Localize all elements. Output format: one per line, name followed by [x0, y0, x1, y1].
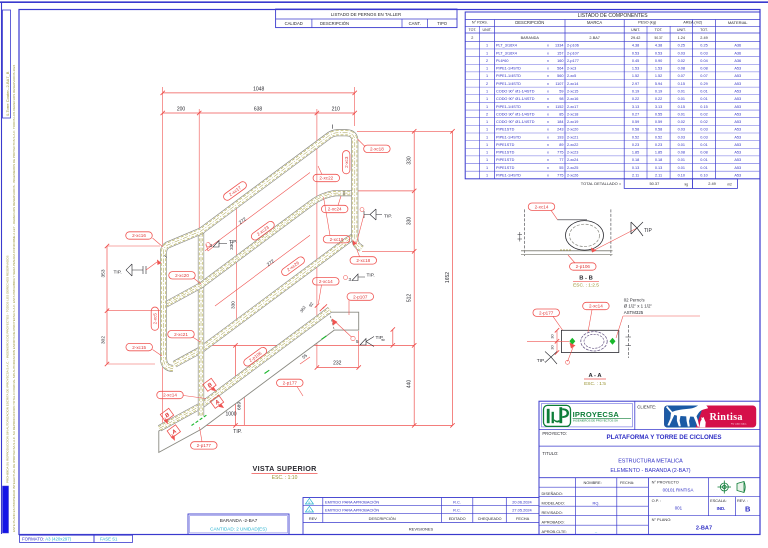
svg-text:5.94: 5.94: [655, 82, 662, 86]
svg-text:0.08: 0.08: [678, 151, 685, 155]
svg-text:B - B: B - B: [579, 275, 593, 281]
svg-text:AREA (m2): AREA (m2): [683, 21, 703, 25]
outer left border line: [1, 2, 3, 534]
svg-text:REVISIONES: REVISIONES: [409, 526, 434, 531]
svg-text:DISEÑADO:: DISEÑADO:: [542, 491, 563, 496]
svg-text:2-p177: 2-p177: [197, 443, 212, 448]
svg-text:ELEMENTO - BARANDA (2-BA7): ELEMENTO - BARANDA (2-BA7): [610, 468, 690, 474]
svg-text:0-Torre Coater--2-BA7_B: 0-Torre Coater--2-BA7_B: [5, 71, 10, 116]
svg-text:0.23: 0.23: [655, 143, 662, 147]
svg-text:A53: A53: [734, 105, 741, 109]
svg-text:UNIT.: UNIT.: [677, 28, 686, 32]
label 2-xc16: [126, 232, 153, 239]
plate 2-p107 slant joint dashed line: [329, 312, 334, 330]
sloped dim 272 upper: [205, 173, 310, 251]
svg-text:2-p177: 2-p177: [283, 381, 298, 386]
green weld dash near landing plate: [322, 336, 327, 339]
svg-text:2-xc18: 2-xc18: [370, 147, 384, 152]
svg-text:ESC. : 1:5: ESC. : 1:5: [584, 381, 606, 387]
svg-text:x: x: [547, 120, 549, 124]
svg-text:A53: A53: [734, 151, 741, 155]
svg-text:5: 5: [356, 339, 359, 344]
svg-text:R.C.: R.C.: [453, 507, 461, 512]
svg-text:0.19: 0.19: [632, 89, 639, 93]
svg-text:Por sobre todos: Por sobre todos: [731, 422, 747, 425]
svg-text:x: x: [547, 105, 549, 109]
svg-text:PL6*60: PL6*60: [496, 59, 508, 63]
svg-text:2-xc19: 2-xc19: [330, 237, 344, 242]
svg-text:1: 1: [486, 44, 488, 48]
svg-text:1.85: 1.85: [655, 151, 662, 155]
svg-text:564: 564: [557, 67, 563, 71]
svg-text:85: 85: [559, 112, 563, 116]
svg-text:0.03: 0.03: [700, 51, 707, 55]
bottom margin fase box: [94, 535, 133, 542]
dim vline 330x2 inside structure x=236.5: [236, 204, 238, 324]
dim hline y=131 to 1652 line: [357, 130, 453, 132]
svg-text:0.02: 0.02: [678, 120, 685, 124]
svg-text:0.01: 0.01: [678, 97, 685, 101]
svg-text:TIP.: TIP.: [229, 239, 237, 245]
svg-text:2: 2: [471, 36, 473, 40]
svg-text:2-xc14: 2-xc14: [535, 204, 549, 209]
svg-text:2-xc15: 2-xc15: [132, 345, 146, 350]
label 2-xc15: [126, 343, 153, 350]
svg-text:PROHIBIDA SU REPRODUCCION SIN: PROHIBIDA SU REPRODUCCION SIN AUTORIZACI…: [6, 256, 10, 484]
svg-text:A53: A53: [734, 174, 741, 178]
label 2-xc5: [151, 307, 158, 330]
svg-text:BARANDA: BARANDA: [521, 36, 540, 40]
detail B-B: pipe circle 2-xc14: [566, 221, 604, 251]
mid rail pipe 2-xc23 with elbow 2-xc19 and 2-xc24 horizontal: [166, 193, 354, 305]
svg-text:UNIT.: UNIT.: [483, 28, 492, 32]
svg-text:TOTAL DETALLADO =: TOTAL DETALLADO =: [581, 181, 622, 186]
svg-text:CHEQUEADO: CHEQUEADO: [478, 517, 502, 521]
dim extension vline x=163: [162, 87, 164, 246]
svg-text:560: 560: [557, 74, 563, 78]
svg-text:2-xc19: 2-xc19: [567, 120, 578, 124]
svg-text:0.10: 0.10: [678, 174, 685, 178]
svg-text:1107: 1107: [555, 82, 563, 86]
dim line 1048 top: [163, 92, 355, 94]
svg-text:ESC. : 1:2.5: ESC. : 1:2.5: [573, 283, 599, 289]
svg-text:638: 638: [254, 106, 263, 112]
svg-text:TIP.: TIP.: [537, 358, 545, 364]
svg-text:x: x: [547, 59, 549, 63]
svg-text:0.02: 0.02: [700, 112, 707, 116]
svg-text:0.58: 0.58: [632, 128, 639, 132]
svg-text:0.55: 0.55: [655, 112, 662, 116]
svg-text:0.07: 0.07: [700, 74, 707, 78]
svg-text:0.27: 0.27: [632, 112, 639, 116]
rintisa logo: [664, 404, 756, 427]
sloped dim 272 lower: [215, 235, 310, 306]
left dim vline 353-302 x=107: [106, 246, 108, 364]
svg-text:0.08: 0.08: [700, 151, 707, 155]
svg-text:0.53: 0.53: [632, 51, 639, 55]
svg-text:DESCRIPCIÓN: DESCRIPCIÓN: [320, 21, 349, 26]
svg-text:ESC. : 1:10: ESC. : 1:10: [272, 475, 298, 481]
svg-text:001: 001: [675, 506, 683, 511]
svg-text:0.18: 0.18: [632, 158, 639, 162]
svg-text:PROYECTO:: PROYECTO:: [542, 431, 567, 436]
svg-text:689: 689: [237, 402, 243, 410]
svg-text:2-xc14: 2-xc14: [567, 82, 578, 86]
svg-text:0.08: 0.08: [678, 67, 685, 71]
outer top border line: [0, 1, 768, 3]
svg-text:TIP: TIP: [644, 228, 652, 234]
svg-text:0.08: 0.08: [700, 67, 707, 71]
svg-text:A53: A53: [734, 112, 741, 116]
svg-text:PIPE1-1/4STD: PIPE1-1/4STD: [496, 74, 521, 78]
svg-text:2-xc18: 2-xc18: [356, 258, 370, 263]
svg-text:2: 2: [486, 59, 488, 63]
svg-text:EDITADO: EDITADO: [449, 516, 466, 521]
svg-text:2.11: 2.11: [655, 174, 662, 178]
svg-text:353: 353: [101, 269, 107, 277]
svg-text:2-xc20: 2-xc20: [567, 128, 578, 132]
svg-text:0.01: 0.01: [700, 143, 707, 147]
svg-text:0.01: 0.01: [700, 89, 707, 93]
svg-text:N° PLANO:: N° PLANO:: [652, 517, 672, 522]
svg-text:TIPO: TIPO: [437, 21, 448, 26]
svg-text:CLIENTE:: CLIENTE:: [637, 404, 656, 409]
svg-text:2-p107: 2-p107: [567, 51, 579, 55]
svg-text:200: 200: [177, 106, 186, 112]
pipe 2-xc14 on stringer: [160, 310, 331, 429]
svg-text:MARCA: MARCA: [587, 20, 602, 25]
svg-text:2: 2: [486, 112, 488, 116]
svg-text:55: 55: [559, 166, 563, 170]
svg-text:02 Perno’s: 02 Perno’s: [624, 297, 646, 302]
svg-text:PLATAFORMA Y TORRE DE CICLONES: PLATAFORMA Y TORRE DE CICLONES: [606, 434, 721, 441]
svg-text:1: 1: [486, 51, 488, 55]
svg-text:EMITIDO PARA APROBACIÓN: EMITIDO PARA APROBACIÓN: [325, 499, 379, 504]
iproyecsa logo: [542, 404, 633, 427]
svg-text:2-xc21: 2-xc21: [174, 332, 188, 337]
detail B-B: plate edge-on lines: [521, 250, 613, 252]
svg-text:0.45: 0.45: [632, 59, 639, 63]
svg-text:PIPE1STD: PIPE1STD: [496, 143, 515, 147]
svg-text:2-xc5: 2-xc5: [153, 313, 158, 325]
svg-text:1: 1: [486, 105, 488, 109]
svg-text:1: 1: [486, 97, 488, 101]
svg-text:1.24: 1.24: [678, 36, 685, 40]
svg-text:TOT.: TOT.: [700, 28, 708, 32]
svg-text:TIP.: TIP.: [233, 429, 242, 435]
section marker B upper: [203, 378, 216, 391]
detail B-B: label 2-xc14: [528, 203, 555, 210]
detail B-B: top tangent line: [557, 219, 587, 221]
svg-text:1: 1: [486, 74, 488, 78]
svg-text:CODO 90° Ø1-1/4STD: CODO 90° Ø1-1/4STD: [496, 89, 535, 93]
svg-text:160: 160: [557, 59, 563, 63]
svg-text:x: x: [547, 51, 549, 55]
svg-text:R.C.: R.C.: [453, 499, 461, 504]
svg-text:PIPE1-1/4STD: PIPE1-1/4STD: [496, 105, 521, 109]
svg-text:50.37: 50.37: [655, 36, 663, 40]
svg-text:x: x: [547, 82, 549, 86]
svg-text:CANT.: CANT.: [409, 21, 421, 26]
svg-text:1: 1: [486, 128, 488, 132]
section marker A lower: [167, 425, 180, 438]
svg-text:ESCALA:: ESCALA:: [710, 498, 726, 503]
dim hline y=345: [199, 344, 414, 346]
svg-text:BARANDA -2-BA7: BARANDA -2-BA7: [220, 518, 258, 523]
svg-text:2-xc5: 2-xc5: [567, 74, 576, 78]
svg-text:0.03: 0.03: [678, 128, 685, 132]
svg-text:2-xc16: 2-xc16: [132, 233, 146, 238]
svg-text:2-xc23: 2-xc23: [567, 151, 578, 155]
svg-text:REV: REV: [309, 516, 317, 521]
svg-text:0.53: 0.53: [655, 51, 662, 55]
svg-text:TITULO:: TITULO:: [542, 451, 558, 456]
dim extension vline x=199: [198, 109, 200, 222]
table: listado de pernos en taller: [276, 9, 457, 28]
svg-text:0.22: 0.22: [655, 97, 662, 101]
svg-text:Ø 1/2" x 1 1/2": Ø 1/2" x 1 1/2": [624, 304, 653, 309]
stringer plate 2-p106 outline: [159, 312, 359, 452]
svg-text:REVISADO:: REVISADO:: [542, 510, 563, 515]
svg-text:157: 157: [557, 51, 563, 55]
detail A-A: label 2-xc14: [583, 302, 610, 309]
detail A-A: red weld arrow inside plate: [570, 343, 576, 349]
svg-text:0.01: 0.01: [700, 97, 707, 101]
detail B-B: left dim mark: [518, 232, 523, 242]
svg-text:2-p106: 2-p106: [567, 44, 579, 48]
svg-text:1: 1: [486, 158, 488, 162]
svg-text:27.05.2024: 27.05.2024: [512, 507, 532, 512]
red weld arrow on post 2-xc5: [157, 260, 162, 266]
svg-text:A53: A53: [734, 89, 741, 93]
svg-text:0.02: 0.02: [700, 120, 707, 124]
svg-text:2.11: 2.11: [632, 174, 639, 178]
dim vline 689 x=244: [243, 388, 245, 425]
svg-text:30: 30: [551, 334, 555, 338]
svg-text:1: 1: [486, 143, 488, 147]
svg-text:0.01: 0.01: [678, 166, 685, 170]
svg-text:x: x: [547, 166, 549, 170]
svg-text:A36: A36: [734, 44, 741, 48]
svg-text:1: 1: [486, 67, 488, 71]
svg-text:2.97: 2.97: [632, 82, 639, 86]
svg-text:512: 512: [407, 294, 413, 303]
label 2-xc26 on rail: [280, 255, 306, 277]
svg-text:2-xc24: 2-xc24: [567, 158, 578, 162]
svg-text:DESCRIPCIÓN: DESCRIPCIÓN: [515, 20, 544, 25]
dim line 200-638-210: [163, 112, 355, 114]
svg-text:1: 1: [486, 174, 488, 178]
svg-text:330: 330: [407, 217, 413, 226]
svg-text:330: 330: [231, 301, 236, 309]
svg-text:x: x: [547, 158, 549, 162]
dim hline y=425 bottom: [199, 424, 452, 426]
svg-text:1.52: 1.52: [632, 74, 639, 78]
detail B-B: olive marks: [560, 249, 572, 251]
svg-text:PIPE1-1/4STD: PIPE1-1/4STD: [496, 82, 521, 86]
svg-text:89: 89: [559, 143, 563, 147]
svg-text:1.53: 1.53: [632, 67, 639, 71]
svg-text:2-xc25: 2-xc25: [567, 166, 578, 170]
svg-text:1000: 1000: [225, 412, 236, 418]
svg-text:x: x: [547, 97, 549, 101]
svg-text:193: 193: [557, 135, 563, 139]
svg-text:2-p177: 2-p177: [567, 59, 579, 63]
detail B-B: red weld arrow: [591, 248, 597, 253]
label 2-xc24: [321, 205, 348, 212]
svg-text:232: 232: [333, 361, 342, 367]
label 2-xc17 on rail: [222, 180, 248, 202]
svg-text:Rintisa: Rintisa: [710, 412, 743, 423]
svg-text:1048: 1048: [253, 86, 264, 92]
svg-text:FECHA: FECHA: [516, 516, 530, 521]
svg-text:2-xc18: 2-xc18: [567, 112, 578, 116]
svg-text:1: 1: [486, 120, 488, 124]
detail A-A: left dim 30 30: [556, 330, 558, 352]
svg-text:PIPE1STD: PIPE1STD: [496, 128, 515, 132]
svg-text:PIPE1-1/4STD: PIPE1-1/4STD: [496, 174, 521, 178]
label 2-xc22: [313, 174, 340, 181]
svg-text:FASE S1: FASE S1: [100, 537, 118, 542]
svg-text:x: x: [547, 174, 549, 178]
label 2-xc14 lower-left: [157, 391, 184, 398]
svg-text:A53: A53: [734, 143, 741, 147]
svg-text:LISTADO DE PERNOS EN TALLER: LISTADO DE PERNOS EN TALLER: [331, 12, 401, 17]
svg-text:IND.: IND.: [717, 506, 726, 511]
svg-text:ESTE PLANO ES PROPIEDAD INTELE: ESTE PLANO ES PROPIEDAD INTELECTUAL DE I…: [12, 64, 16, 532]
svg-text:0.13: 0.13: [655, 166, 662, 170]
svg-text:0.29: 0.29: [700, 82, 707, 86]
svg-text:A53: A53: [734, 135, 741, 139]
svg-text:330: 330: [407, 156, 413, 165]
svg-text:2-xc24: 2-xc24: [328, 207, 342, 212]
svg-text:1: 1: [486, 89, 488, 93]
svg-text:INGENIEROS DE PROYECTOS SA: INGENIEROS DE PROYECTOS SA: [573, 419, 618, 423]
svg-text:3: 3: [349, 277, 352, 282]
svg-text:1652: 1652: [445, 272, 451, 283]
svg-text:0.03: 0.03: [678, 51, 685, 55]
svg-text:3.13: 3.13: [632, 105, 639, 109]
svg-text:1: 1: [486, 166, 488, 170]
svg-text:PIPE1STD: PIPE1STD: [496, 151, 515, 155]
svg-text:LISTADO DE COMPONENTES: LISTADO DE COMPONENTES: [578, 13, 649, 19]
top rail chain: post 2-xc5, elbow 2-xc16, rail 2-xc17, 2-xc25, elbow 2-xc18, post 2-xc3: [164, 133, 362, 369]
joint marks on pipes: [332, 125, 334, 129]
title block outer: [539, 401, 760, 534]
detail B-B: dashed extension lines: [523, 209, 525, 256]
svg-text:A53: A53: [734, 120, 741, 124]
svg-text:2-xc3: 2-xc3: [344, 156, 349, 168]
projection symbol cone: [737, 482, 745, 493]
svg-text:A - A: A - A: [588, 373, 602, 379]
green weld dash mid stringer: [265, 370, 270, 373]
svg-text:0.03: 0.03: [700, 135, 707, 139]
svg-text:A53: A53: [734, 158, 741, 162]
svg-text:PLT_3/16X4: PLT_3/16X4: [496, 51, 517, 55]
svg-text:440: 440: [407, 380, 413, 389]
svg-text:APROB.CLTE:: APROB.CLTE:: [542, 529, 567, 534]
svg-text:B: B: [308, 501, 310, 505]
svg-text:0.25: 0.25: [700, 44, 707, 48]
svg-text:0.90: 0.90: [655, 59, 662, 63]
svg-text:1.53: 1.53: [655, 67, 662, 71]
dim hline y=191: [358, 190, 414, 192]
svg-text:1.52: 1.52: [655, 74, 662, 78]
detail A-A: label 2-p177: [533, 309, 560, 316]
svg-text:A36: A36: [734, 51, 741, 55]
dim vline 50 x=393: [392, 330, 394, 346]
svg-text:2: 2: [486, 82, 488, 86]
svg-text:0.02: 0.02: [678, 59, 685, 63]
svg-text:0.01: 0.01: [700, 158, 707, 162]
svg-text:TIP.: TIP.: [367, 273, 375, 279]
svg-text:2-p177: 2-p177: [539, 310, 554, 315]
svg-text:2-BA7: 2-BA7: [696, 526, 712, 532]
svg-text:1334: 1334: [555, 44, 563, 48]
svg-text:PIPE1STD: PIPE1STD: [496, 166, 515, 170]
svg-text:184: 184: [557, 120, 563, 124]
svg-text:29.42: 29.42: [631, 36, 641, 40]
svg-text:kg: kg: [685, 182, 689, 186]
svg-text:775: 775: [557, 174, 563, 178]
svg-text:TIP.: TIP.: [384, 214, 392, 220]
svg-text:1152: 1152: [555, 105, 563, 109]
svg-text:50.37: 50.37: [650, 181, 660, 186]
svg-text:0.01: 0.01: [700, 166, 707, 170]
svg-text:3.13: 3.13: [655, 105, 662, 109]
svg-text:FORMATO: A3 (420x297): FORMATO: A3 (420x297): [22, 537, 72, 542]
dim 232 lines: [358, 331, 360, 368]
svg-text:0.58: 0.58: [655, 128, 662, 132]
svg-text:2-p106: 2-p106: [576, 264, 591, 269]
label 2-p177 right: [277, 379, 304, 386]
svg-text:PIPE1STD: PIPE1STD: [496, 158, 515, 162]
svg-text:A53: A53: [734, 82, 741, 86]
svg-text:x: x: [547, 143, 549, 147]
svg-text:x: x: [547, 89, 549, 93]
svg-text:B: B: [745, 505, 751, 514]
svg-text:0.01: 0.01: [678, 158, 685, 162]
detail A-A: red center line: [527, 340, 569, 342]
green weld dashes at post 2 base: [192, 424, 195, 426]
svg-text:2-xc17: 2-xc17: [567, 105, 578, 109]
detail A-A: green bolt diamonds: [569, 338, 575, 345]
svg-text:TOT.: TOT.: [468, 28, 476, 32]
label 2-p106 on plate: [242, 346, 268, 368]
svg-text:DESCRIPCIÓN: DESCRIPCIÓN: [369, 516, 396, 521]
svg-text:4.38: 4.38: [655, 44, 662, 48]
svg-text:2-xc14: 2-xc14: [589, 304, 603, 309]
dim vline 1652 x=452: [452, 131, 454, 425]
svg-text:0.13: 0.13: [632, 166, 639, 170]
baranda quantity box: [188, 514, 289, 535]
svg-text:x: x: [547, 128, 549, 132]
svg-text:REV. :: REV. :: [737, 498, 748, 503]
svg-text:N° PZAS.: N° PZAS.: [472, 21, 488, 25]
svg-text:A53: A53: [734, 166, 741, 170]
svg-text:0.07: 0.07: [678, 74, 685, 78]
svg-text:775: 775: [557, 151, 563, 155]
svg-text:PIPE1-1/4STD: PIPE1-1/4STD: [496, 67, 521, 71]
svg-text:20.06.2024: 20.06.2024: [512, 499, 532, 504]
svg-text:0.15: 0.15: [678, 105, 685, 109]
svg-text:0.01: 0.01: [678, 89, 685, 93]
label 2-p177 bottom: [191, 442, 218, 449]
x-tick at plate left of 2-p107: [320, 307, 324, 311]
left margin blue filled block: [3, 486, 9, 533]
svg-text:EMITIDO PARA APROBACIÓN: EMITIDO PARA APROBACIÓN: [325, 507, 379, 512]
svg-text:77: 77: [559, 158, 563, 162]
